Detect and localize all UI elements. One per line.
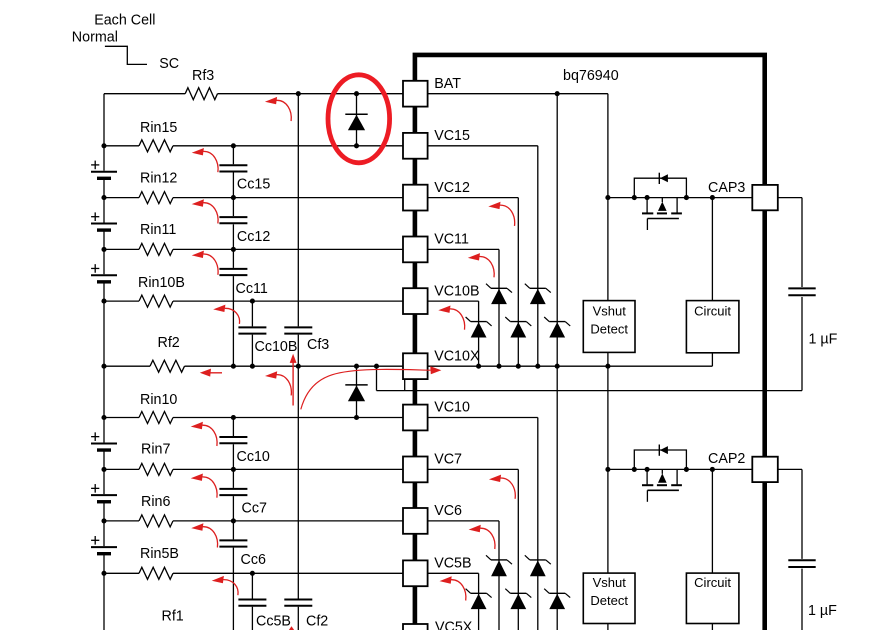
svg-text:Rin6: Rin6	[141, 494, 170, 510]
svg-text:Rf2: Rf2	[158, 335, 180, 351]
red arrow Rin6	[203, 527, 218, 548]
zener clamp BAT row2	[549, 321, 565, 323]
pin box BAT	[403, 81, 428, 107]
zener clamp VC6 row1 lower	[491, 559, 507, 561]
pin box VC12	[403, 185, 428, 211]
resistor Rin15	[139, 140, 173, 152]
pin box CAP2	[752, 457, 778, 482]
wire VC7 input	[104, 468, 139, 470]
battery cell 10-7	[103, 418, 105, 443]
svg-text:CAP2: CAP2	[708, 451, 745, 467]
pin box VC5B	[403, 560, 428, 586]
node dots VC10X bus	[231, 364, 236, 369]
red arrow VC10B pin	[450, 309, 465, 330]
box Vshut Detect lower	[583, 573, 635, 623]
svg-text:Rin15: Rin15	[140, 120, 177, 136]
wire CAP2 external to 1uF	[778, 468, 802, 470]
svg-text:VC11: VC11	[434, 232, 469, 248]
resistor Rin5B	[139, 567, 173, 579]
resistor Rin10B	[139, 295, 173, 307]
wire VC10X input	[104, 365, 150, 367]
wire VC11 input	[104, 248, 139, 250]
node dot VC5B wire	[250, 571, 255, 576]
svg-text:VC15: VC15	[434, 128, 470, 144]
node dot VC11 wire	[231, 247, 236, 252]
box Vshut Detect upper	[583, 301, 635, 353]
wire VC15 internal	[428, 145, 538, 147]
svg-text:Rin10: Rin10	[140, 392, 177, 408]
red arrow Rin5B	[223, 580, 238, 596]
capacitor Cc15	[219, 164, 247, 166]
battery cell 11-10B	[103, 249, 105, 274]
node dot VC7 wire	[231, 467, 236, 472]
svg-text:VC6: VC6	[434, 503, 462, 519]
node dots M1 row	[605, 195, 610, 200]
node dot VC6 wire	[231, 518, 236, 523]
pin box VC7	[403, 457, 428, 483]
node dots M2 row	[605, 467, 610, 472]
svg-text:VC5B: VC5B	[434, 556, 471, 572]
svg-text:Cc6: Cc6	[241, 552, 266, 568]
red arrow VC6 pin	[480, 528, 495, 549]
svg-text:Detect: Detect	[590, 321, 628, 336]
pin box CAP3	[752, 185, 778, 210]
wire CAP2 row	[608, 468, 752, 470]
resistor Rin7	[139, 463, 173, 475]
zener clamp VC7 row2 lower	[510, 592, 526, 594]
diode D1 BAT-VC15	[356, 94, 358, 146]
capacitor 1uF lower	[788, 559, 815, 561]
red arrow Cc10B	[277, 375, 292, 396]
svg-text:Cf2: Cf2	[306, 613, 328, 629]
capacitor Cc7	[219, 488, 247, 490]
svg-text:Cc11: Cc11	[236, 281, 268, 297]
svg-text:VC7: VC7	[434, 452, 462, 468]
red arrow VC7 pin	[500, 478, 515, 499]
resistor Rin6	[139, 515, 173, 527]
wire VC5B internal	[428, 572, 479, 574]
wire BAT input	[104, 93, 185, 95]
svg-text:Circuit: Circuit	[694, 303, 731, 318]
battery cell 12-11	[103, 198, 105, 223]
svg-text:Cf3: Cf3	[307, 337, 329, 353]
resistor Rf2	[150, 360, 185, 372]
resistor Rf3	[185, 88, 217, 100]
battery cell 15-12	[103, 146, 105, 171]
battery cell 7-6	[103, 469, 105, 494]
svg-text:Rin7: Rin7	[141, 441, 170, 457]
svg-text:VC10B: VC10B	[434, 283, 479, 299]
svg-text:Detect: Detect	[590, 593, 628, 608]
wire circuit1 column	[711, 198, 713, 301]
svg-text:Rin12: Rin12	[140, 170, 177, 186]
wire VC5B input	[104, 572, 139, 574]
wire VC10B internal	[428, 300, 479, 302]
capacitor Cc5B with leads	[251, 573, 253, 598]
transistor M1	[634, 178, 686, 197]
svg-text:Cc12: Cc12	[237, 229, 270, 245]
zener clamp VC11 row1	[491, 287, 507, 289]
battery cell 6-5B	[103, 521, 105, 546]
svg-text:Rin11: Rin11	[140, 222, 176, 238]
svg-text:Vshut: Vshut	[593, 575, 627, 590]
red arrow Rin7	[202, 477, 217, 498]
red arrow BAT wire	[276, 100, 291, 121]
svg-text:Cc10B: Cc10B	[255, 339, 298, 355]
red straight arrow VC10X wire	[204, 372, 222, 374]
wire VC10 input	[104, 417, 139, 419]
IC bq76940 outline	[415, 55, 765, 630]
svg-text:VC5X: VC5X	[435, 620, 473, 630]
svg-text:Rf3: Rf3	[192, 68, 214, 84]
svg-text:Normal: Normal	[72, 29, 118, 45]
svg-text:Rin10B: Rin10B	[138, 275, 185, 291]
red highlight ellipse	[328, 75, 390, 163]
wire CAP3 row	[608, 197, 752, 199]
capacitor Cf3 with leads	[297, 94, 299, 327]
node dot VC10B wire	[250, 299, 255, 304]
red arrow Rin12	[203, 203, 218, 224]
zener clamp VC10 row1 lower	[530, 559, 546, 561]
red arrow Rin15	[203, 151, 218, 172]
node dot VC12 wire	[231, 195, 236, 200]
svg-text:SC: SC	[159, 56, 179, 72]
capacitor Cc12	[219, 216, 247, 218]
svg-text:Rf1: Rf1	[162, 608, 184, 624]
waveform annotation Each Cell/Normal/SC step	[105, 46, 147, 64]
wire VC10B input	[104, 300, 139, 302]
red swoosh arrow to VC10X pin	[301, 369, 431, 409]
red arrow Rin11	[203, 254, 218, 275]
zener clamp VC12 row2	[510, 321, 526, 323]
capacitor 1uF upper	[788, 287, 815, 289]
capacitor Cc11	[219, 268, 247, 270]
pin box VC11	[403, 237, 428, 263]
red up arrow Cf3	[292, 362, 294, 406]
svg-text:Circuit: Circuit	[694, 575, 731, 590]
svg-text:1 µF: 1 µF	[808, 603, 837, 619]
pin box VC10X	[403, 353, 428, 379]
wire BAT internal	[428, 93, 608, 95]
red arrow Rin10	[202, 425, 217, 446]
resistor Rin10	[139, 412, 173, 424]
zener clamp clamp-col row2 lower	[549, 592, 565, 594]
wire circuit2 column	[711, 469, 713, 573]
wire VC10 internal	[428, 417, 538, 419]
resistor Rin12	[139, 192, 173, 204]
wire BAT clamp column	[556, 94, 558, 630]
diode D2 VC10X-VC10	[356, 366, 358, 417]
svg-text:Rin5B: Rin5B	[140, 546, 179, 562]
wire CAP3 external to 1uF	[778, 197, 802, 199]
svg-text:Each Cell: Each Cell	[94, 13, 155, 29]
svg-text:VC10X: VC10X	[434, 348, 480, 364]
red up arrowhead Cf2 bottom	[289, 626, 295, 630]
capacitor chain line lower	[232, 418, 234, 437]
wire VC7 internal	[428, 468, 519, 470]
svg-text:Cc15: Cc15	[237, 177, 270, 193]
svg-text:bq76940: bq76940	[563, 68, 619, 84]
node dots VC15 wire	[231, 143, 236, 148]
transistor M2	[634, 450, 686, 469]
node dots BAT wire	[296, 91, 301, 96]
capacitor Cc10B with leads	[251, 301, 253, 326]
capacitor Cc10	[219, 436, 247, 438]
svg-text:VC12: VC12	[434, 180, 470, 196]
svg-text:Cc5B: Cc5B	[256, 613, 291, 629]
wire VC12 input	[104, 197, 139, 199]
pin box VC10	[403, 405, 428, 431]
wire VC12 internal	[428, 197, 519, 199]
box Circuit lower	[686, 573, 739, 623]
wire vshut column	[607, 198, 609, 301]
pin box VC5X	[403, 624, 428, 630]
wire VC6 internal	[428, 520, 500, 522]
zener clamp VC5B row2 lower	[471, 592, 487, 594]
svg-text:BAT: BAT	[434, 76, 461, 92]
resistor Rin11	[139, 243, 173, 255]
svg-text:Vshut: Vshut	[593, 303, 627, 318]
zener clamp VC10B row2	[471, 321, 487, 323]
capacitor chain line upper	[232, 146, 234, 165]
node dots VC10 wire	[231, 415, 236, 420]
svg-text:1 µF: 1 µF	[809, 332, 838, 348]
pin box VC10B	[403, 288, 428, 314]
red arrow VC11 pin	[479, 256, 494, 277]
capacitor Cf2 with leads	[297, 366, 299, 598]
red arrow Rin10B	[225, 308, 240, 324]
svg-text:Cc10: Cc10	[237, 449, 270, 465]
capacitor Cc6	[219, 539, 247, 541]
left battery rail	[103, 94, 105, 146]
svg-text:VC10: VC10	[434, 400, 470, 416]
rail junction dots	[101, 143, 106, 148]
wire VC15 input	[104, 145, 139, 147]
wire VC10X internal bus	[428, 365, 713, 367]
wire VC6 input	[104, 520, 139, 522]
red arrow VC12 pin	[500, 205, 515, 226]
zener clamp VC15 row1	[530, 287, 546, 289]
svg-text:Cc7: Cc7	[242, 501, 267, 517]
red arrow VC5B pin	[451, 580, 466, 601]
pin box VC15	[403, 133, 428, 159]
pin box VC6	[403, 508, 428, 534]
box Circuit upper	[686, 301, 739, 353]
wire VC11 internal	[428, 248, 500, 250]
svg-text:CAP3: CAP3	[708, 180, 745, 196]
